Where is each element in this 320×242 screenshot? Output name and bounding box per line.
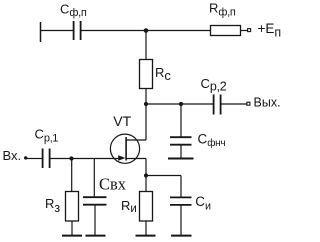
wire Си to ground — [180, 205, 182, 235]
ground under Свх — [86, 235, 106, 237]
wire top rail middle — [81, 30, 210, 32]
svg-text:Вх.: Вх. — [3, 148, 22, 163]
resistor Rc — [140, 60, 172, 89]
wire Сфнч to ground — [180, 146, 182, 159]
terminal Вх — [3, 148, 28, 163]
resistor Rз — [45, 192, 79, 222]
wire Ср,2 to output terminal — [221, 103, 247, 105]
terminal +Еп — [248, 21, 282, 39]
terminal Вых — [247, 96, 281, 110]
wire Rз branch — [71, 159, 73, 192]
wire Свх to ground — [94, 205, 96, 235]
capacitor Си — [170, 194, 211, 212]
wire drain rail down to Сфнч — [180, 104, 182, 137]
svg-text:Свх: Свх — [99, 175, 127, 194]
capacitor Свх — [83, 175, 127, 205]
left rail terminal bar — [40, 22, 42, 42]
svg-text:Вых.: Вых. — [254, 96, 281, 110]
node drain rail left — [144, 102, 148, 106]
wire Свх branch — [93, 159, 95, 198]
wire source down — [145, 159, 147, 192]
capacitor Сфнч — [170, 131, 225, 149]
wire Си branch down — [180, 176, 182, 198]
wire drain rail — [146, 103, 213, 105]
ground under Rз — [62, 235, 82, 237]
wire Rф,п to terminal — [241, 30, 248, 32]
svg-text:Ср,2: Ср,2 — [201, 76, 227, 94]
node drain rail / Сфнч — [179, 102, 183, 106]
wire Rз to ground — [71, 221, 73, 235]
wire drain up — [145, 104, 147, 140]
node gate / Rз — [69, 156, 73, 160]
wire top rail left — [41, 30, 74, 32]
wire source node to Си — [146, 175, 181, 177]
svg-text:VT: VT — [113, 113, 131, 129]
wire input to Ср,1 — [27, 158, 43, 160]
resistor Rи — [121, 192, 153, 222]
ground under Rи — [136, 235, 156, 237]
capacitor Cф,п — [60, 1, 87, 40]
wire gate — [50, 158, 119, 160]
resistor Rф,п — [209, 1, 241, 36]
wire Rи to ground — [145, 221, 147, 235]
ground under Си — [171, 235, 192, 237]
wire Rc to drain rail — [145, 89, 147, 105]
wire rail junction down to Rc — [145, 31, 147, 61]
capacitor Ср,1 — [35, 126, 59, 168]
capacitor Ср,2 — [201, 76, 227, 114]
node junction top rail / Rc — [144, 28, 149, 33]
transistor VT — [110, 113, 146, 163]
ground under Сфнч — [168, 158, 194, 160]
node source / Си branch — [144, 173, 148, 177]
